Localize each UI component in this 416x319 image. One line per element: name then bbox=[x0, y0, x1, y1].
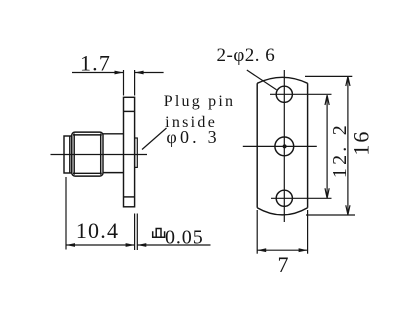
dim 1.7 arrow left bbox=[115, 71, 124, 75]
center hole bbox=[275, 137, 294, 156]
dim 7 line bbox=[257, 249, 307, 251]
svg-text:1.7: 1.7 bbox=[80, 51, 111, 76]
dim 1.7 right tail bbox=[135, 72, 164, 74]
dim 12.2 arrow bottom bbox=[325, 188, 329, 198]
dim 7 arrow right bbox=[299, 248, 308, 252]
dim 7 extension line right bbox=[307, 210, 309, 254]
left barrel inner line bbox=[69, 136, 71, 173]
svg-text:10.4: 10.4 bbox=[76, 218, 119, 243]
side view centerline bbox=[51, 154, 148, 156]
left barrel of connector body bbox=[64, 136, 72, 173]
neck bottom line bbox=[103, 172, 124, 174]
nut chamfer line right bbox=[100, 134, 102, 175]
bottom hole centerline / 12.2 extension bbox=[271, 197, 332, 199]
dim 10.4 arrow left bbox=[66, 243, 75, 247]
svg-text:7: 7 bbox=[278, 252, 289, 277]
bottom mounting hole bbox=[276, 190, 292, 206]
dim 10.4 extension line left bbox=[65, 177, 67, 250]
svg-text:2-φ2. 6: 2-φ2. 6 bbox=[217, 45, 276, 66]
nut chamfer line bottom bbox=[73, 172, 102, 174]
dim 10.4 extension line right bbox=[134, 214, 136, 251]
dim 10.4 arrow right bbox=[126, 243, 135, 247]
dim 16 line bbox=[347, 76, 349, 214]
flange side view bbox=[124, 97, 135, 207]
leader line to plug pin bbox=[142, 128, 167, 150]
flange hole line bottom bbox=[124, 196, 135, 198]
dim 7 extension line left bbox=[256, 210, 258, 254]
dim 12.2 arrow top bbox=[325, 95, 329, 105]
leader line for 2-phi2.6 bbox=[247, 70, 277, 90]
front vertical centerline bbox=[283, 70, 285, 222]
neck top line bbox=[103, 133, 124, 135]
front horizontal centerline bbox=[243, 145, 317, 147]
top mounting hole bbox=[276, 86, 292, 102]
top hole centerline / 12.2 extension bbox=[270, 93, 332, 95]
svg-text:φ0. 3: φ0. 3 bbox=[166, 127, 219, 147]
dim 10.4 line bbox=[66, 244, 135, 246]
svg-text:16: 16 bbox=[348, 130, 373, 156]
dim 1.7 left tail bbox=[72, 72, 124, 74]
dim 1.7 extension line right bbox=[134, 70, 136, 96]
dim 1.7 extension line left bbox=[123, 70, 125, 96]
center pin dot bbox=[283, 144, 287, 148]
dim 16 arrow bottom bbox=[346, 205, 350, 214]
svg-text:0.05: 0.05 bbox=[165, 227, 204, 249]
dim 0.05 tail line bbox=[137, 244, 210, 246]
dim 16 extension line bottom bbox=[306, 214, 355, 216]
dim 16 extension line top bbox=[305, 75, 352, 77]
svg-text:Plug pin: Plug pin bbox=[164, 93, 235, 110]
protrusion symbol (convex mark) bbox=[153, 229, 165, 238]
dim 16 arrow top bbox=[346, 77, 350, 86]
flange front outline bbox=[257, 77, 307, 215]
nut chamfer line left bbox=[73, 134, 75, 175]
insulator protrusion right of flange bbox=[135, 138, 138, 167]
dim 1.7 arrow right bbox=[135, 71, 144, 75]
dim 7 arrow left bbox=[257, 248, 266, 252]
dim 0.05 extension line bbox=[136, 214, 138, 251]
coupling nut outer outline bbox=[72, 132, 103, 176]
nut chamfer line top bbox=[73, 134, 102, 136]
dim 12.2 line bbox=[326, 95, 328, 197]
flange hole line top bbox=[124, 110, 135, 112]
dim 0.05 arrow bbox=[137, 243, 146, 247]
